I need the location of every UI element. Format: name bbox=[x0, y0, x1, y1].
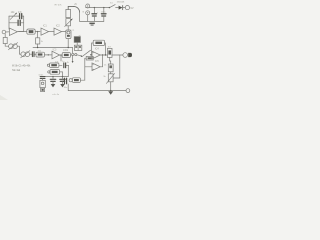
capacitor C2 bbox=[18, 20, 20, 25]
resistor R3 bbox=[36, 38, 40, 44]
resistor R14 bbox=[50, 70, 60, 75]
capacitor C13 electrolytic bbox=[60, 79, 65, 81]
capacitor C1 bbox=[20, 14, 22, 19]
battery terminal bottom bbox=[86, 11, 90, 15]
svg-text:IC3: IC3 bbox=[53, 48, 57, 51]
svg-text:M 56+C1+45+40k: M 56+C1+45+40k bbox=[12, 66, 31, 68]
wire bbox=[6, 31, 10, 33]
op-amp IC1b bbox=[41, 28, 49, 35]
node N bbox=[103, 7, 104, 8]
jack housing bbox=[41, 88, 45, 91]
capacitor C14 bbox=[40, 77, 45, 79]
capacitor C12 electrolytic bbox=[50, 79, 55, 81]
resistor R9 bbox=[107, 48, 112, 57]
earphone jack J3 bbox=[123, 53, 128, 58]
wire bbox=[84, 67, 86, 80]
rail bottom-left bbox=[46, 76, 69, 78]
node A bbox=[37, 31, 38, 32]
lamp LA1 bbox=[66, 30, 71, 39]
wire bbox=[120, 54, 123, 56]
wire bbox=[44, 54, 52, 56]
input terminal J1 bbox=[2, 30, 6, 34]
wire bbox=[37, 32, 39, 38]
wire stub arrow bbox=[72, 56, 74, 62]
potentiometer P1 bbox=[9, 15, 19, 17]
terminal small2 bbox=[48, 71, 50, 73]
potentiometer P4 bbox=[108, 74, 113, 82]
node F bbox=[91, 54, 92, 55]
dual potentiometer P2b bbox=[21, 52, 26, 57]
switch S1 bbox=[109, 7, 110, 8]
switch S2 housing bbox=[74, 45, 81, 50]
rail top bbox=[86, 7, 110, 9]
resistor R11 bbox=[86, 56, 93, 60]
wire bbox=[60, 71, 63, 73]
wire bbox=[104, 43, 107, 55]
wire bbox=[5, 44, 8, 47]
wire bbox=[91, 54, 92, 56]
terminal +9V bbox=[125, 6, 129, 10]
node L bbox=[110, 90, 111, 91]
rail return bbox=[80, 20, 104, 22]
svg-text:9V: 9V bbox=[130, 6, 133, 10]
wire bbox=[17, 46, 21, 54]
op-amp IC2a bbox=[52, 51, 60, 59]
resistor R2 bbox=[27, 29, 35, 34]
wire bbox=[68, 6, 73, 9]
svg-text:IC1: IC1 bbox=[43, 24, 47, 27]
diode D1 bbox=[119, 6, 123, 10]
resistor R5 bbox=[66, 9, 71, 17]
wire bbox=[110, 57, 111, 64]
resistor R12 bbox=[72, 78, 80, 83]
svg-text:n.b. 4x: n.b. 4x bbox=[52, 94, 59, 96]
capacitor C16 bbox=[103, 8, 105, 14]
resistor R6 bbox=[62, 53, 70, 58]
wire bbox=[100, 55, 102, 67]
wire bbox=[22, 15, 24, 17]
wire bbox=[35, 31, 40, 33]
ground bar bbox=[89, 23, 94, 25]
op-amp IC3b bbox=[92, 63, 100, 71]
wire feedback left bbox=[8, 16, 10, 29]
crystal X1 bbox=[74, 37, 80, 43]
wire wiper bbox=[113, 77, 120, 79]
resistor R13 bbox=[50, 63, 59, 67]
svg-text:R7 47k: R7 47k bbox=[55, 4, 63, 6]
wire bootstrap bbox=[119, 55, 121, 78]
wire bbox=[110, 82, 112, 91]
wire bbox=[79, 12, 81, 21]
wire stub bbox=[60, 55, 62, 61]
node G bbox=[102, 54, 103, 55]
wire bbox=[70, 54, 71, 56]
op-amp IC1c bbox=[54, 28, 62, 35]
wire feedback right bbox=[19, 16, 24, 31]
op-amp IC1a bbox=[9, 28, 17, 35]
resistor R8 bbox=[93, 40, 104, 45]
ground bbox=[51, 84, 56, 87]
node M bbox=[94, 7, 95, 8]
wire bbox=[49, 31, 54, 33]
wire bbox=[62, 72, 64, 77]
wire bbox=[67, 26, 69, 30]
ground bbox=[60, 84, 65, 87]
potentiometer P3 bbox=[66, 19, 71, 26]
node I bbox=[52, 76, 53, 77]
terminal small bbox=[47, 64, 49, 66]
wire bbox=[112, 54, 120, 56]
svg-text:Tab 3ad: Tab 3ad bbox=[12, 70, 21, 72]
ground main bbox=[108, 91, 113, 95]
svg-text:100k: 100k bbox=[63, 49, 69, 52]
wire bbox=[37, 44, 39, 47]
node C bbox=[68, 47, 69, 48]
wire bbox=[67, 84, 69, 91]
resistor R1 bbox=[3, 37, 7, 43]
wire bbox=[80, 79, 84, 81]
resistor R4 bbox=[36, 52, 44, 57]
svg-text:1N4148: 1N4148 bbox=[117, 2, 125, 4]
capacitor C11 bbox=[64, 63, 66, 68]
wire bbox=[17, 31, 26, 33]
wire bbox=[66, 64, 69, 66]
svg-text:100u: 100u bbox=[101, 11, 107, 13]
wire bbox=[9, 22, 18, 24]
wire bbox=[60, 54, 63, 56]
capacitor C10 bbox=[65, 78, 67, 84]
capacitor C15 bbox=[93, 8, 95, 14]
node D bbox=[60, 54, 61, 55]
node B bbox=[37, 47, 38, 48]
svg-text:IC4: IC4 bbox=[95, 48, 99, 51]
wire bbox=[63, 80, 64, 82]
wire bbox=[59, 64, 62, 66]
rail bottom bbox=[68, 90, 126, 92]
wire bbox=[100, 54, 107, 56]
svg-text:IC2: IC2 bbox=[56, 24, 60, 27]
connector link bbox=[72, 53, 74, 55]
wire bbox=[92, 43, 94, 55]
wire bbox=[67, 65, 69, 76]
wire bbox=[34, 53, 36, 55]
op-amp IC3a bbox=[92, 51, 100, 59]
svg-text:IC5: IC5 bbox=[95, 60, 99, 63]
wire bbox=[110, 72, 112, 74]
trimmer P5 bbox=[40, 80, 45, 87]
page shade corner bbox=[0, 95, 8, 100]
dual potentiometer P2a bbox=[9, 44, 14, 49]
wire bbox=[67, 39, 69, 48]
wire bbox=[85, 58, 92, 67]
terminal J2 bbox=[69, 79, 72, 82]
rail mid bbox=[33, 48, 73, 54]
switch S2 bbox=[81, 56, 82, 57]
resistor R10 bbox=[108, 64, 113, 72]
node J bbox=[62, 76, 63, 77]
wire bbox=[30, 53, 32, 55]
capacitor C3 bbox=[32, 52, 34, 57]
node H bbox=[105, 54, 106, 55]
terminal J4 bbox=[126, 89, 130, 93]
wire bbox=[62, 31, 66, 33]
battery terminal top bbox=[86, 4, 90, 8]
